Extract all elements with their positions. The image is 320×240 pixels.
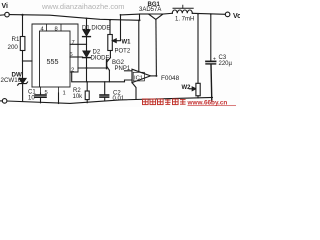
- svg-text:2: 2: [71, 67, 74, 73]
- svg-text:2CW16: 2CW16: [1, 77, 22, 84]
- svg-text:220µ: 220µ: [219, 61, 233, 67]
- svg-text:1. 7mH: 1. 7mH: [175, 17, 194, 23]
- svg-text:+: +: [213, 57, 216, 63]
- svg-text:10: 10: [28, 95, 35, 101]
- svg-text:DIODE: DIODE: [91, 55, 110, 61]
- svg-text:3AD57A: 3AD57A: [139, 7, 161, 13]
- svg-text:8: 8: [55, 26, 58, 32]
- svg-text:C3: C3: [219, 55, 227, 61]
- svg-text:W1: W1: [122, 39, 132, 45]
- svg-text:10k: 10k: [73, 94, 84, 100]
- svg-text:F0048: F0048: [161, 75, 180, 82]
- svg-text:PNP1: PNP1: [115, 66, 131, 72]
- svg-text:7: 7: [72, 40, 75, 46]
- svg-text:0.01: 0.01: [113, 96, 125, 102]
- svg-text:R1: R1: [12, 36, 20, 43]
- svg-text:555: 555: [47, 57, 59, 66]
- svg-text:1: 1: [63, 90, 66, 96]
- svg-text:D1 DIODE: D1 DIODE: [82, 25, 110, 31]
- svg-text:IC1: IC1: [134, 76, 143, 82]
- svg-text:POT2: POT2: [115, 48, 131, 54]
- svg-text:W2: W2: [182, 85, 192, 91]
- svg-text:200: 200: [8, 44, 19, 51]
- svg-text:Vo: Vo: [233, 13, 240, 20]
- svg-text:6: 6: [70, 52, 73, 58]
- svg-text:5: 5: [45, 90, 48, 96]
- svg-text:www.dianzaihaozhe.com: www.dianzaihaozhe.com: [41, 2, 125, 11]
- svg-text:Vi: Vi: [2, 3, 9, 10]
